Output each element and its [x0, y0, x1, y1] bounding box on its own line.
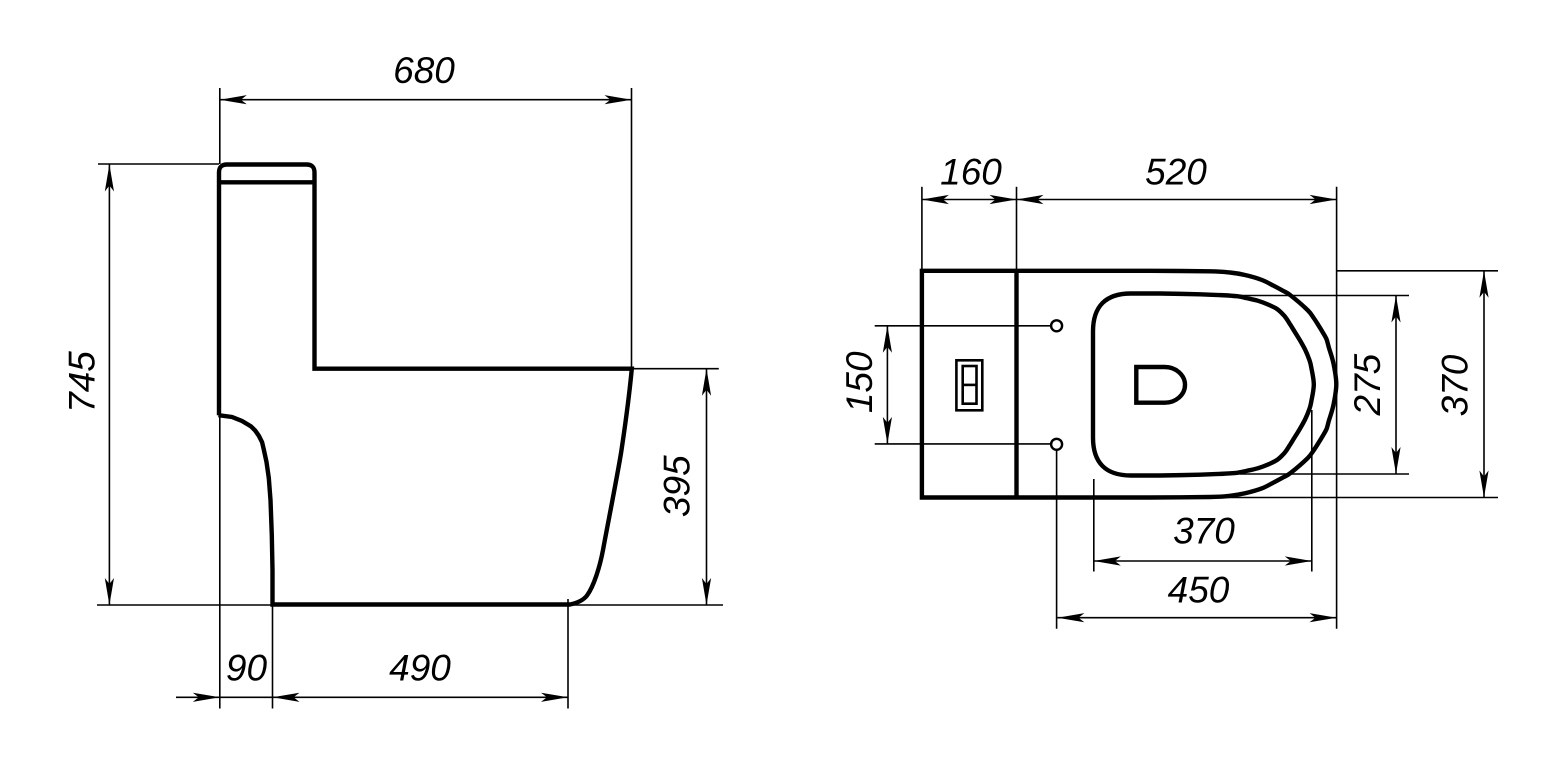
dimension 745: bottom arrow	[105, 578, 114, 605]
svg-text:395: 395	[657, 455, 698, 517]
dimension 90/490: extension line at foot left	[272, 606, 274, 709]
dimension 150: top arrow	[883, 326, 892, 353]
svg-text:370: 370	[1173, 511, 1235, 552]
dimension 395: dimension line	[706, 369, 708, 605]
dimension 160: right arrow	[990, 195, 1017, 204]
dimension 370 right: bottom extension line	[1223, 497, 1498, 499]
svg-text:150: 150	[839, 351, 880, 413]
dimension 745: top extension line	[98, 163, 219, 165]
dimension 680: extension line left	[219, 88, 221, 164]
dimension 275: bottom arrow	[1391, 447, 1400, 474]
svg-text:680: 680	[393, 50, 455, 91]
dimension 745: top arrow	[105, 165, 114, 192]
tank divider line	[1014, 271, 1018, 498]
flush button divider	[963, 384, 977, 387]
svg-text:490: 490	[389, 648, 451, 689]
dimension 370 bottom: right arrow	[1285, 556, 1312, 565]
svg-text:370: 370	[1435, 354, 1476, 416]
dimension 490: extension line right	[567, 599, 569, 709]
dimension 90: extension line at tank left	[219, 415, 221, 709]
dimension 490: left arrow	[273, 693, 300, 702]
tank lid line	[219, 180, 315, 184]
flush button outer	[956, 360, 982, 410]
dimension 275: dimension line	[1395, 296, 1397, 475]
svg-text:90: 90	[226, 648, 268, 689]
dimension 160/520: extension line middle	[1016, 187, 1018, 271]
dimension 160: left arrow	[922, 195, 949, 204]
seat outline	[1093, 294, 1314, 476]
dimension 370 right: top arrow	[1479, 271, 1488, 298]
flush hole	[1136, 367, 1185, 403]
dimension 370 right: bottom arrow	[1479, 471, 1488, 498]
dimension 370 bottom: right extension line	[1311, 410, 1313, 572]
dimension 520: right arrow	[1310, 195, 1337, 204]
dimension 370 bottom: left extension line	[1093, 479, 1095, 572]
svg-text:275: 275	[1347, 353, 1388, 416]
dimension 490: right arrow	[541, 693, 568, 702]
dimension 150: bottom extension line	[875, 443, 1052, 445]
dimension 680: dimension line	[220, 99, 632, 101]
dimension 450: left arrow	[1057, 613, 1084, 622]
toilet body outline (side view)	[219, 165, 632, 605]
dimension 275: bottom extension line	[1240, 473, 1409, 475]
dimension 450: left extension line	[1056, 451, 1058, 629]
svg-text:450: 450	[1168, 570, 1230, 611]
hinge hole bottom	[1051, 439, 1062, 450]
dimension 680: extension line right	[631, 88, 633, 368]
dimension 150: bottom arrow	[883, 417, 892, 444]
dimension 745: dimension line	[108, 165, 110, 606]
dimension 160: extension line left	[921, 187, 923, 271]
dimension 90: outside arrow	[193, 693, 220, 702]
flush button inner	[963, 366, 977, 404]
dimension 160: dimension line	[922, 199, 1017, 201]
dimension 370 right: top extension line	[1336, 270, 1498, 272]
dimension 275: top extension line	[1240, 295, 1409, 297]
hinge hole top	[1051, 320, 1062, 331]
dimension 90/490: dimension line	[176, 696, 568, 698]
dimension 395: bottom arrow	[702, 578, 711, 605]
dimension 370 bottom: left arrow	[1094, 556, 1121, 565]
dimension 150: top extension line	[875, 325, 1052, 327]
dimension 370 right: dimension line	[1483, 271, 1485, 498]
dimension 150: dimension line	[886, 326, 888, 444]
dimension 450: right arrow	[1310, 613, 1337, 622]
bottom extension line (shared 745/395)	[97, 604, 723, 606]
svg-text:520: 520	[1145, 152, 1207, 193]
svg-text:160: 160	[940, 152, 1002, 193]
dimension 370 bottom: dimension line	[1094, 560, 1312, 562]
dimension 450: dimension line	[1057, 617, 1336, 619]
dimension 395: top arrow	[702, 369, 711, 396]
dimension 680: right arrow	[605, 95, 632, 104]
dimension 520: dimension line	[1017, 199, 1337, 201]
dimension 275: top arrow	[1391, 296, 1400, 323]
toilet body outline (top view)	[922, 271, 1336, 498]
dimension 680: left arrow	[220, 95, 247, 104]
svg-text:745: 745	[62, 351, 103, 413]
dimension 520: left arrow	[1017, 195, 1044, 204]
dimension 395: top extension line	[632, 368, 719, 370]
dimension 520/450: extension line right	[1336, 187, 1338, 629]
